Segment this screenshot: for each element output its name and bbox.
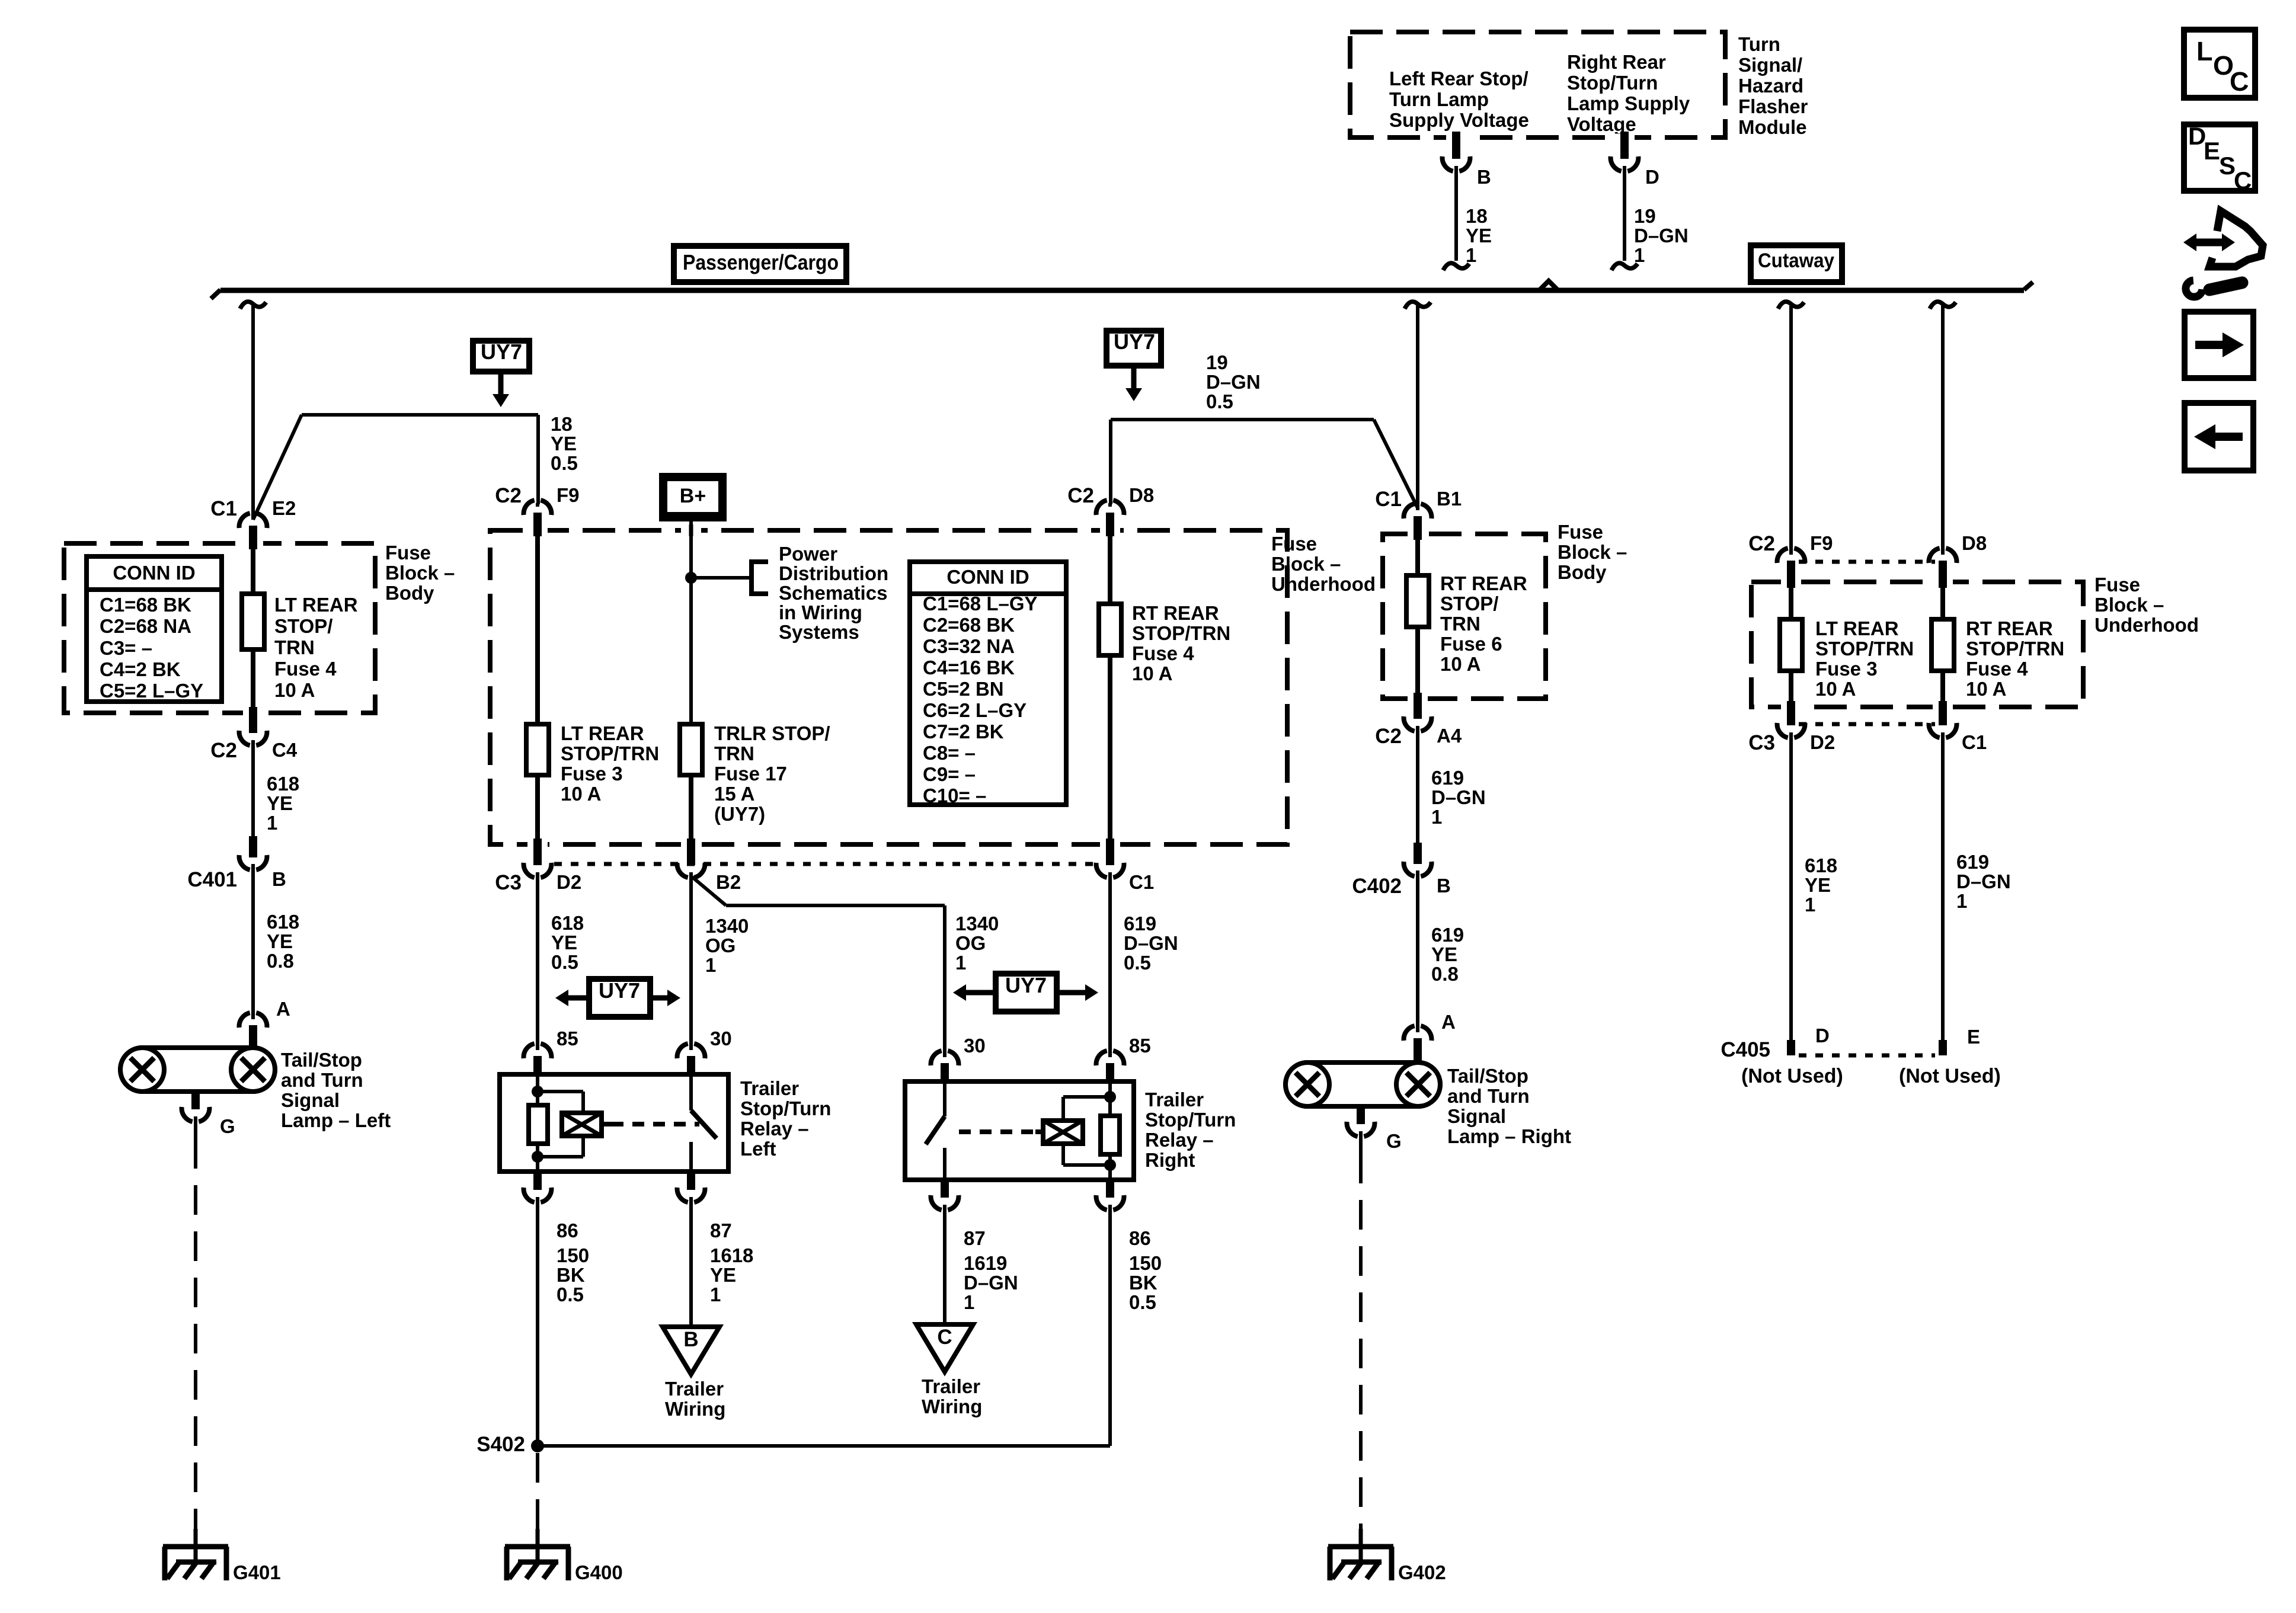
svg-text:Body: Body — [1558, 561, 1607, 583]
svg-text:STOP/: STOP/ — [1440, 593, 1498, 615]
svg-text:30: 30 — [964, 1035, 986, 1057]
svg-text:B: B — [272, 868, 286, 890]
svg-text:Schematics: Schematics — [779, 582, 887, 604]
svg-text:YE: YE — [710, 1264, 736, 1286]
svg-text:Fuse 17: Fuse 17 — [714, 763, 787, 785]
svg-text:Lamp – Right: Lamp – Right — [1447, 1125, 1571, 1147]
svg-text:STOP/TRN: STOP/TRN — [1132, 622, 1230, 644]
svg-text:CONN ID: CONN ID — [113, 562, 195, 584]
svg-text:D–GN: D–GN — [964, 1272, 1018, 1294]
svg-text:D–GN: D–GN — [1634, 225, 1689, 247]
svg-text:OG: OG — [705, 934, 736, 956]
svg-text:RT REAR: RT REAR — [1132, 602, 1219, 624]
svg-text:Turn: Turn — [1738, 33, 1780, 55]
svg-text:C2=68 BK: C2=68 BK — [923, 614, 1015, 636]
svg-text:in Wiring: in Wiring — [779, 601, 862, 623]
svg-text:Block –: Block – — [385, 562, 455, 584]
svg-text:Hazard: Hazard — [1738, 75, 1803, 97]
svg-text:Turn Lamp: Turn Lamp — [1389, 88, 1489, 110]
svg-text:D: D — [1645, 166, 1659, 188]
svg-text:1340: 1340 — [955, 913, 999, 934]
svg-text:TRN: TRN — [714, 743, 754, 764]
svg-text:0.8: 0.8 — [267, 950, 294, 972]
svg-text:Right: Right — [1145, 1149, 1195, 1171]
svg-text:Signal: Signal — [1447, 1105, 1506, 1127]
svg-text:G: G — [220, 1115, 235, 1137]
svg-text:YE: YE — [1805, 874, 1831, 896]
svg-text:C7=2 BK: C7=2 BK — [923, 721, 1004, 743]
svg-text:86: 86 — [557, 1220, 578, 1241]
svg-text:YE: YE — [551, 433, 577, 455]
svg-text:B: B — [1437, 875, 1451, 897]
svg-text:Distribution: Distribution — [779, 562, 888, 584]
svg-text:YE: YE — [267, 792, 293, 814]
svg-text:C1=68 BK: C1=68 BK — [100, 594, 191, 616]
svg-text:0.5: 0.5 — [1124, 952, 1151, 974]
svg-text:C: C — [937, 1326, 952, 1349]
svg-text:Fuse 4: Fuse 4 — [1966, 658, 2028, 680]
svg-text:Wiring: Wiring — [922, 1396, 982, 1417]
svg-text:RT REAR: RT REAR — [1440, 572, 1527, 594]
svg-text:Fuse: Fuse — [1558, 521, 1603, 543]
svg-text:A4: A4 — [1437, 725, 1462, 747]
svg-text:0.5: 0.5 — [551, 452, 578, 474]
svg-text:C2: C2 — [1067, 484, 1094, 507]
svg-text:D: D — [1815, 1025, 1830, 1046]
svg-text:1340: 1340 — [705, 915, 749, 937]
svg-text:Fuse: Fuse — [2094, 574, 2140, 596]
svg-text:10 A: 10 A — [1440, 653, 1480, 675]
svg-text:UY7: UY7 — [1114, 329, 1155, 354]
svg-text:C1: C1 — [1962, 731, 1987, 753]
svg-text:Passenger/Cargo: Passenger/Cargo — [683, 250, 839, 274]
svg-text:C3: C3 — [495, 871, 522, 894]
svg-text:Stop/Turn: Stop/Turn — [740, 1097, 831, 1119]
svg-text:Relay –: Relay – — [740, 1118, 809, 1140]
svg-text:B+: B+ — [680, 485, 706, 507]
svg-text:Trailer: Trailer — [740, 1077, 799, 1099]
svg-text:G400: G400 — [575, 1561, 623, 1583]
svg-text:1: 1 — [964, 1291, 974, 1313]
svg-text:Stop/Turn: Stop/Turn — [1567, 72, 1658, 94]
svg-text:(Not Used): (Not Used) — [1741, 1065, 1843, 1087]
svg-text:A: A — [1441, 1011, 1456, 1033]
svg-text:C4=2 BK: C4=2 BK — [100, 658, 181, 680]
svg-text:D–GN: D–GN — [1124, 932, 1178, 954]
svg-text:and Turn: and Turn — [281, 1069, 363, 1091]
svg-text:D2: D2 — [1810, 731, 1835, 753]
svg-text:BK: BK — [557, 1264, 585, 1286]
svg-text:G: G — [1386, 1130, 1402, 1152]
svg-text:1: 1 — [1431, 806, 1442, 828]
svg-text:Stop/Turn: Stop/Turn — [1145, 1109, 1236, 1131]
svg-text:A: A — [276, 998, 290, 1020]
svg-text:C2: C2 — [210, 739, 237, 762]
svg-text:G402: G402 — [1398, 1561, 1446, 1583]
svg-text:C401: C401 — [187, 868, 237, 891]
svg-text:619: 619 — [1956, 851, 1989, 873]
svg-text:619: 619 — [1431, 924, 1464, 946]
svg-text:Fuse: Fuse — [385, 542, 431, 564]
svg-text:619: 619 — [1124, 913, 1156, 934]
svg-text:85: 85 — [557, 1028, 578, 1049]
svg-text:D–GN: D–GN — [1206, 371, 1261, 393]
svg-text:(UY7): (UY7) — [714, 803, 765, 825]
svg-text:D–GN: D–GN — [1431, 786, 1486, 808]
svg-text:1: 1 — [1466, 244, 1476, 266]
svg-text:0.5: 0.5 — [551, 951, 578, 973]
svg-text:TRLR STOP/: TRLR STOP/ — [714, 722, 830, 744]
svg-text:C1: C1 — [1129, 871, 1154, 893]
svg-text:19: 19 — [1634, 205, 1656, 227]
svg-text:15 A: 15 A — [714, 783, 754, 805]
svg-text:S402: S402 — [477, 1433, 525, 1456]
svg-text:C5=2 L–GY: C5=2 L–GY — [100, 680, 203, 702]
svg-text:Tail/Stop: Tail/Stop — [281, 1049, 362, 1071]
svg-text:LT REAR: LT REAR — [274, 594, 358, 616]
svg-text:Relay –: Relay – — [1145, 1129, 1214, 1151]
svg-text:and Turn: and Turn — [1447, 1085, 1530, 1107]
svg-text:10 A: 10 A — [274, 679, 315, 701]
svg-text:LT REAR: LT REAR — [561, 722, 644, 744]
svg-text:1: 1 — [955, 952, 966, 974]
svg-text:Signal: Signal — [281, 1089, 340, 1111]
svg-text:1: 1 — [710, 1284, 721, 1305]
svg-text:Fuse 6: Fuse 6 — [1440, 633, 1502, 655]
svg-text:YE: YE — [551, 932, 577, 953]
svg-text:C1: C1 — [210, 497, 237, 520]
svg-text:C1=68 L–GY: C1=68 L–GY — [923, 593, 1038, 615]
svg-text:87: 87 — [964, 1227, 986, 1249]
svg-text:(Not Used): (Not Used) — [1899, 1065, 2001, 1087]
svg-text:10 A: 10 A — [1132, 663, 1172, 684]
svg-text:C5=2 BN: C5=2 BN — [923, 678, 1004, 700]
svg-text:1618: 1618 — [710, 1244, 753, 1266]
svg-text:87: 87 — [710, 1220, 732, 1241]
svg-text:Right Rear: Right Rear — [1567, 51, 1666, 73]
svg-text:618: 618 — [267, 773, 299, 795]
svg-text:1: 1 — [267, 812, 277, 834]
svg-text:Systems: Systems — [779, 621, 859, 643]
svg-text:TRN: TRN — [1440, 613, 1480, 635]
svg-text:C2: C2 — [1748, 532, 1775, 555]
svg-text:STOP/TRN: STOP/TRN — [1966, 638, 2064, 660]
svg-text:Lamp Supply: Lamp Supply — [1567, 92, 1690, 114]
svg-text:UY7: UY7 — [481, 340, 522, 364]
svg-text:C405: C405 — [1721, 1038, 1770, 1061]
svg-text:150: 150 — [557, 1244, 589, 1266]
svg-text:1: 1 — [1805, 894, 1815, 916]
svg-text:YE: YE — [1431, 943, 1457, 965]
svg-text:618: 618 — [1805, 854, 1837, 876]
svg-text:Module: Module — [1738, 116, 1806, 138]
svg-text:C4: C4 — [272, 739, 298, 761]
svg-text:618: 618 — [551, 912, 584, 934]
svg-text:C4=16 BK: C4=16 BK — [923, 657, 1015, 679]
svg-text:E: E — [2204, 137, 2220, 165]
svg-text:10 A: 10 A — [1966, 678, 2006, 700]
svg-text:0.8: 0.8 — [1431, 963, 1459, 985]
svg-text:C8= –: C8= – — [923, 742, 976, 764]
svg-text:Trailer: Trailer — [1145, 1089, 1204, 1110]
svg-text:CONN ID: CONN ID — [946, 566, 1029, 588]
svg-text:Flasher: Flasher — [1738, 95, 1808, 117]
svg-text:LT REAR: LT REAR — [1815, 617, 1899, 639]
svg-text:Cutaway: Cutaway — [1758, 249, 1834, 272]
svg-text:C: C — [2230, 66, 2249, 97]
svg-text:Fuse 3: Fuse 3 — [1815, 658, 1878, 680]
svg-text:0.5: 0.5 — [557, 1284, 584, 1305]
svg-text:85: 85 — [1129, 1035, 1151, 1057]
svg-text:C: C — [2234, 167, 2252, 194]
svg-text:B1: B1 — [1437, 488, 1462, 510]
svg-text:619: 619 — [1431, 767, 1464, 789]
svg-text:Body: Body — [385, 582, 434, 604]
svg-text:F9: F9 — [1810, 532, 1833, 554]
svg-text:30: 30 — [710, 1028, 732, 1049]
svg-text:C10= –: C10= – — [923, 785, 986, 806]
svg-text:S: S — [2219, 152, 2236, 180]
svg-text:Fuse: Fuse — [1271, 533, 1317, 555]
svg-text:Trailer: Trailer — [922, 1375, 980, 1397]
svg-text:STOP/TRN: STOP/TRN — [1815, 638, 1914, 660]
svg-text:10 A: 10 A — [561, 783, 601, 805]
svg-text:Block –: Block – — [1558, 541, 1627, 563]
svg-text:B: B — [683, 1328, 698, 1351]
svg-text:UY7: UY7 — [599, 978, 640, 1003]
svg-text:0.5: 0.5 — [1206, 391, 1233, 412]
svg-text:YE: YE — [1466, 225, 1492, 247]
svg-text:C2: C2 — [1375, 725, 1402, 748]
svg-text:1: 1 — [1956, 890, 1967, 912]
svg-text:Left Rear Stop/: Left Rear Stop/ — [1389, 68, 1528, 89]
svg-text:F9: F9 — [557, 484, 580, 506]
svg-text:OG: OG — [955, 932, 986, 954]
svg-text:UY7: UY7 — [1005, 973, 1047, 997]
svg-text:Underhood: Underhood — [2094, 614, 2199, 636]
svg-text:STOP/TRN: STOP/TRN — [561, 743, 659, 764]
svg-text:Wiring: Wiring — [665, 1398, 725, 1420]
svg-text:Trailer: Trailer — [665, 1378, 724, 1400]
svg-text:Fuse 3: Fuse 3 — [561, 763, 623, 785]
svg-text:Tail/Stop: Tail/Stop — [1447, 1065, 1528, 1087]
svg-text:Fuse 4: Fuse 4 — [1132, 642, 1194, 664]
svg-text:Underhood: Underhood — [1271, 573, 1376, 595]
svg-text:Left: Left — [740, 1138, 776, 1160]
svg-text:E2: E2 — [272, 497, 296, 519]
svg-text:C2: C2 — [495, 484, 522, 507]
svg-text:E: E — [1967, 1026, 1980, 1048]
svg-text:TRN: TRN — [274, 636, 315, 658]
svg-text:Lamp – Left: Lamp – Left — [281, 1109, 391, 1131]
svg-text:L: L — [2196, 36, 2213, 66]
svg-text:C402: C402 — [1352, 875, 1402, 898]
svg-text:150: 150 — [1129, 1252, 1162, 1274]
svg-text:C1: C1 — [1375, 488, 1402, 511]
svg-text:G401: G401 — [233, 1561, 281, 1583]
svg-text:Supply Voltage: Supply Voltage — [1389, 109, 1529, 131]
svg-text:10 A: 10 A — [1815, 678, 1856, 700]
svg-text:618: 618 — [267, 911, 299, 933]
svg-text:STOP/: STOP/ — [274, 615, 332, 637]
svg-text:D2: D2 — [557, 871, 581, 893]
svg-text:B2: B2 — [716, 871, 741, 893]
svg-text:18: 18 — [551, 413, 573, 435]
svg-text:Fuse 4: Fuse 4 — [274, 658, 337, 680]
svg-text:1: 1 — [705, 954, 716, 976]
svg-text:Block –: Block – — [1271, 553, 1341, 575]
svg-text:B: B — [1477, 166, 1491, 188]
svg-text:D8: D8 — [1129, 484, 1154, 506]
svg-text:1: 1 — [1634, 244, 1645, 266]
svg-text:Block –: Block – — [2094, 594, 2164, 616]
svg-text:19: 19 — [1206, 351, 1228, 373]
svg-text:Power: Power — [779, 543, 837, 565]
svg-text:86: 86 — [1129, 1227, 1151, 1249]
svg-text:D8: D8 — [1962, 532, 1987, 554]
svg-text:C3=32 NA: C3=32 NA — [923, 635, 1015, 657]
svg-text:YE: YE — [267, 930, 293, 952]
svg-text:C3: C3 — [1748, 731, 1775, 754]
svg-text:C2=68 NA: C2=68 NA — [100, 615, 191, 637]
svg-text:18: 18 — [1466, 205, 1488, 227]
svg-text:C6=2 L–GY: C6=2 L–GY — [923, 699, 1027, 721]
svg-text:D–GN: D–GN — [1956, 870, 2011, 892]
svg-text:0.5: 0.5 — [1129, 1291, 1156, 1313]
svg-text:BK: BK — [1129, 1272, 1157, 1294]
svg-text:Signal/: Signal/ — [1738, 54, 1802, 76]
svg-text:1619: 1619 — [964, 1252, 1007, 1274]
svg-text:RT REAR: RT REAR — [1966, 617, 2053, 639]
svg-text:C3= –: C3= – — [100, 637, 152, 659]
svg-text:C9= –: C9= – — [923, 763, 976, 785]
